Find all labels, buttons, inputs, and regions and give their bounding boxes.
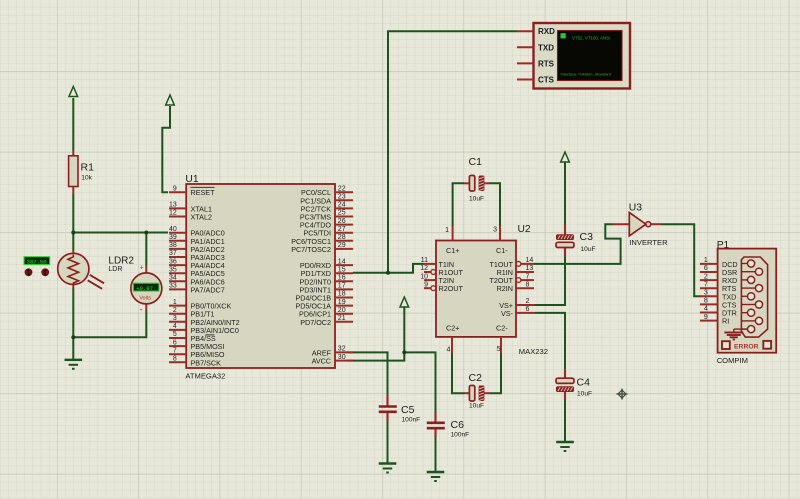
- svg-text:C2+: C2+: [446, 324, 459, 333]
- svg-text:26: 26: [338, 218, 346, 225]
- svg-text:1: 1: [704, 257, 708, 264]
- svg-text:387.50: 387.50: [27, 258, 48, 265]
- svg-text:12: 12: [420, 265, 428, 272]
- svg-text:COMPIM: COMPIM: [717, 356, 748, 365]
- svg-text:PA7/ADC7: PA7/ADC7: [191, 285, 225, 294]
- svg-text:Volts: Volts: [139, 295, 151, 301]
- svg-text:C1+: C1+: [446, 246, 459, 255]
- svg-text:13: 13: [169, 202, 177, 209]
- svg-text:36: 36: [169, 258, 177, 265]
- svg-text:37: 37: [169, 250, 177, 257]
- svg-text:VS-: VS-: [501, 309, 514, 318]
- svg-text:9: 9: [173, 185, 177, 192]
- svg-text:34: 34: [169, 275, 177, 282]
- svg-text:27: 27: [338, 226, 346, 233]
- svg-text:6: 6: [173, 339, 177, 346]
- svg-text:C1: C1: [469, 156, 483, 168]
- svg-text:38: 38: [169, 242, 177, 249]
- svg-text:P1: P1: [717, 240, 730, 251]
- svg-text:7: 7: [704, 281, 708, 288]
- svg-text:9: 9: [424, 281, 428, 288]
- svg-text:C5: C5: [401, 404, 415, 416]
- svg-text:3: 3: [493, 227, 497, 234]
- svg-text:10: 10: [420, 273, 428, 280]
- svg-text:20: 20: [338, 307, 346, 314]
- svg-text:LDR2: LDR2: [108, 255, 134, 266]
- svg-text:C4: C4: [577, 377, 591, 389]
- svg-text:RTS: RTS: [538, 59, 555, 68]
- svg-text:C2-: C2-: [496, 324, 508, 333]
- svg-text:MAX232: MAX232: [519, 347, 548, 356]
- svg-text:23: 23: [338, 194, 346, 201]
- svg-text:RESET: RESET: [191, 188, 216, 197]
- svg-text:-: -: [140, 305, 143, 315]
- svg-text:10uF: 10uF: [469, 403, 484, 410]
- svg-text:4: 4: [173, 323, 177, 330]
- svg-text:35: 35: [169, 266, 177, 273]
- svg-text:R1: R1: [81, 162, 95, 174]
- svg-text:U3: U3: [629, 203, 642, 214]
- svg-text:XTAL2: XTAL2: [191, 213, 212, 222]
- svg-text:12: 12: [169, 210, 177, 217]
- svg-text:100nF: 100nF: [402, 417, 421, 424]
- svg-text:PC7/TOSC2: PC7/TOSC2: [291, 245, 331, 254]
- svg-text:1: 1: [445, 227, 449, 234]
- svg-text:C1-: C1-: [496, 246, 508, 255]
- svg-text:14: 14: [338, 258, 346, 265]
- svg-text:8: 8: [526, 281, 530, 288]
- svg-text:10k: 10k: [81, 175, 92, 182]
- svg-text:PD7/OC2: PD7/OC2: [300, 318, 331, 327]
- svg-text:5: 5: [497, 346, 501, 353]
- svg-text:ATMEGA32: ATMEGA32: [185, 372, 225, 381]
- svg-text:6: 6: [704, 265, 708, 272]
- svg-text:R2IN: R2IN: [497, 284, 513, 293]
- svg-text:Interface, *Hidden, Standard: Interface, *Hidden, Standard: [561, 72, 611, 77]
- svg-text:U2: U2: [518, 224, 531, 235]
- svg-text:16: 16: [338, 275, 346, 282]
- svg-text:ERROR: ERROR: [734, 343, 759, 350]
- svg-text:18: 18: [338, 291, 346, 298]
- svg-text:U1: U1: [185, 174, 198, 185]
- svg-text:7: 7: [526, 273, 530, 280]
- svg-text:CTS: CTS: [538, 76, 555, 85]
- svg-text:40: 40: [169, 226, 177, 233]
- svg-text:9: 9: [704, 314, 708, 321]
- svg-text:6: 6: [526, 306, 530, 313]
- svg-text:11: 11: [421, 257, 428, 264]
- svg-text:5: 5: [173, 331, 177, 338]
- svg-text:25: 25: [338, 210, 346, 217]
- svg-text:4: 4: [446, 347, 450, 354]
- svg-text:14: 14: [526, 257, 534, 264]
- svg-text:22: 22: [338, 185, 346, 192]
- svg-text:3: 3: [704, 290, 708, 297]
- svg-text:INVERTER: INVERTER: [629, 238, 668, 247]
- svg-text:3: 3: [173, 315, 177, 322]
- svg-text:RI: RI: [722, 317, 729, 326]
- svg-text:10uF: 10uF: [577, 390, 592, 397]
- svg-text:13: 13: [526, 265, 534, 272]
- svg-text:RXD: RXD: [538, 27, 555, 36]
- svg-text:29: 29: [338, 242, 346, 249]
- svg-text:33: 33: [169, 283, 177, 290]
- svg-text:28: 28: [338, 234, 346, 241]
- svg-text:2: 2: [173, 307, 177, 314]
- svg-text:21: 21: [338, 315, 346, 322]
- svg-text:+0.87: +0.87: [136, 285, 153, 292]
- svg-text:VT52, VT100, ANSI: VT52, VT100, ANSI: [572, 36, 610, 41]
- svg-text:39: 39: [169, 234, 177, 241]
- svg-text:AVCC: AVCC: [312, 357, 331, 366]
- svg-text:10uF: 10uF: [581, 246, 596, 253]
- svg-text:C3: C3: [580, 231, 594, 243]
- svg-text:32: 32: [338, 346, 346, 353]
- svg-text:24: 24: [338, 202, 346, 209]
- svg-text:C6: C6: [451, 419, 465, 431]
- svg-text:17: 17: [338, 283, 346, 290]
- svg-text:8: 8: [173, 356, 177, 363]
- svg-text:LDR: LDR: [108, 266, 122, 273]
- svg-text:15: 15: [338, 266, 346, 273]
- svg-text:1: 1: [173, 299, 177, 306]
- svg-text:R2OUT: R2OUT: [439, 284, 464, 293]
- svg-text:8: 8: [704, 298, 708, 305]
- svg-text:30: 30: [338, 354, 346, 361]
- svg-text:7: 7: [173, 347, 177, 354]
- svg-text:2: 2: [526, 298, 530, 305]
- svg-text:4: 4: [704, 306, 708, 313]
- svg-text:2: 2: [704, 273, 708, 280]
- svg-text:PB7/SCK: PB7/SCK: [191, 358, 222, 367]
- svg-text:100nF: 100nF: [451, 432, 470, 439]
- svg-text:10uF: 10uF: [469, 196, 484, 203]
- svg-text:+: +: [140, 264, 144, 271]
- svg-text:C2: C2: [469, 372, 483, 384]
- svg-text:TXD: TXD: [538, 43, 554, 52]
- svg-text:19: 19: [338, 299, 346, 306]
